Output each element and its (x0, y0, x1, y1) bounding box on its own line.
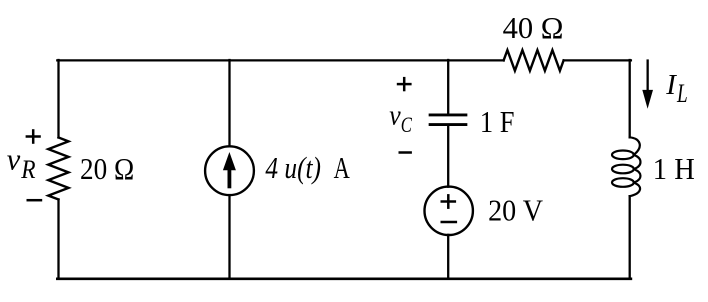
wire capacitor branch middle (447, 126, 449, 187)
current source arrow (223, 152, 236, 188)
plus sign of vR (26, 129, 41, 144)
voltage source V1 circle (425, 187, 473, 235)
svg-text:A: A (334, 150, 351, 185)
resistor R 20 ohm zigzag (48, 138, 68, 200)
svg-text:L: L (676, 79, 687, 108)
svg-text:4 u(t): 4 u(t) (265, 150, 321, 185)
wire top left segment (57, 59, 503, 61)
wire capacitor branch upper (447, 60, 449, 114)
wire current source branch lower (228, 195, 230, 279)
svg-text:v: v (389, 99, 401, 131)
wire left branch lower (57, 200, 59, 279)
capacitor C 1F plates (430, 115, 466, 125)
wire left branch upper (57, 60, 59, 138)
svg-text:C: C (401, 112, 413, 137)
wire top right segment after 40ohm resistor (564, 59, 631, 61)
inductor L 1H coil (612, 137, 640, 196)
plus sign of vC (397, 77, 412, 91)
wire bottom (57, 277, 631, 280)
wire right branch upper (629, 60, 631, 137)
svg-text:40 Ω: 40 Ω (503, 10, 564, 45)
svg-text:v: v (7, 142, 21, 177)
svg-text:I: I (665, 69, 677, 101)
current arrow IL (642, 59, 653, 108)
svg-text:1 H: 1 H (653, 151, 695, 186)
voltage source plus sign (441, 194, 457, 209)
resistor 40 ohm zigzag (504, 50, 564, 71)
svg-text:20 V: 20 V (488, 193, 543, 228)
current source I1 circle (205, 146, 254, 195)
svg-text:20 Ω: 20 Ω (80, 151, 134, 186)
svg-text:R: R (20, 155, 35, 184)
minus sign of vR (27, 199, 43, 202)
wire right branch lower (629, 196, 631, 279)
voltage source minus sign (441, 221, 458, 224)
minus sign of vC (399, 151, 412, 154)
wire capacitor branch lower (447, 235, 449, 279)
wire current source branch upper (228, 60, 230, 146)
svg-text:1 F: 1 F (480, 104, 515, 139)
